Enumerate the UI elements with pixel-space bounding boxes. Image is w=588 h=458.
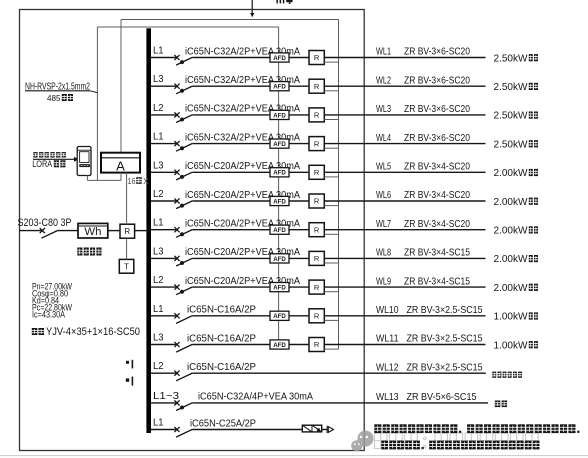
svg-text:AFD: AFD [273, 170, 286, 177]
surge arrester / fuse-disconnect on spare circuit [302, 425, 321, 432]
wire AFD to R row 9 [289, 286, 309, 288]
svg-text:WL4: WL4 [376, 132, 391, 144]
wire busbar tap row 1 [151, 57, 177, 59]
svg-text:2.00kW: 2.00kW [494, 225, 528, 237]
wire breaker to surge device row 14 [192, 429, 302, 431]
breaker Q10 iC65N-C16A/2P [174, 313, 179, 318]
svg-text:AFD: AFD [273, 285, 286, 292]
svg-text:R: R [314, 225, 320, 234]
svg-text:AFD: AFD [273, 141, 286, 148]
svg-text:R: R [314, 168, 320, 177]
watermark logo chat bubbles [351, 431, 373, 452]
AFD module row 2 [270, 82, 289, 91]
R residual-current module row 11 [309, 338, 324, 352]
breaker Q14 iC65N-C25A/2P [174, 427, 179, 432]
wire R stub to signal bus row 3 [324, 119, 338, 121]
svg-text:2.50kW: 2.50kW [494, 81, 528, 93]
wire AFD to R row 2 [289, 85, 309, 87]
svg-text:1.00kW: 1.00kW [494, 311, 528, 323]
wire breaker to AFD row 10 [192, 315, 270, 317]
wire incomer from border [20, 230, 43, 232]
svg-text:R: R [314, 312, 320, 321]
svg-text:R: R [314, 139, 320, 148]
breaker Q13 iC65N-C32A/4P+VEA 30mA [174, 400, 179, 405]
svg-text:ZR BV-3×4-SC20: ZR BV-3×4-SC20 [404, 189, 470, 201]
wire R to busbar [135, 230, 147, 232]
wire outgoing row 9 [324, 286, 485, 288]
svg-text:iC65N-C25A/2P: iC65N-C25A/2P [190, 417, 256, 429]
svg-text:R: R [314, 82, 320, 91]
svg-text:AFD: AFD [273, 256, 286, 263]
wire breaker to AFD row 1 [192, 57, 270, 59]
svg-text:WL13: WL13 [376, 391, 399, 403]
svg-text:2.50kW: 2.50kW [494, 110, 528, 122]
svg-text:L3: L3 [153, 74, 164, 85]
svg-text:A: A [116, 158, 125, 173]
svg-text:L2: L2 [153, 361, 164, 372]
svg-text:AFD: AFD [273, 198, 286, 205]
svg-text:2.00kW: 2.00kW [494, 167, 528, 179]
wire busbar tap row 9 [151, 286, 177, 288]
wire breaker to AFD row 5 [192, 171, 270, 173]
svg-text:AFD: AFD [273, 313, 286, 320]
wire 485 drop on left [96, 27, 98, 180]
svg-text:iC65N-C16A/2P: iC65N-C16A/2P [187, 361, 256, 373]
wire R stub to signal bus row 7 [324, 233, 338, 235]
svg-text:2.00kW: 2.00kW [494, 196, 528, 208]
AFD module row 5 [270, 168, 289, 177]
svg-text:ZR BV-3×4-SC20: ZR BV-3×4-SC20 [404, 161, 470, 173]
AFD module row 11 [270, 340, 289, 349]
svg-text:L2: L2 [153, 103, 164, 114]
wire R stub to signal bus row 10 [324, 319, 338, 321]
svg-text:iC65N-C16A/2P: iC65N-C16A/2P [187, 332, 256, 344]
wire AFD signal bus top run [97, 26, 278, 28]
svg-text:ZR BV-3×4-SC20: ZR BV-3×4-SC20 [404, 218, 470, 230]
breaker Q6 iC65N-C20A/2P+VEA 30mA [174, 198, 179, 203]
R residual-current module row 6 [309, 194, 324, 208]
svg-text:WL2: WL2 [376, 74, 391, 86]
label 无线传输终端 wireless terminal [33, 152, 66, 157]
wire AFD bus vertical [278, 27, 280, 345]
svg-text:LORA: LORA [32, 159, 53, 170]
wire busbar tap row 4 [151, 143, 177, 145]
AFD module row 1 [270, 53, 289, 62]
svg-text:R: R [124, 227, 130, 236]
breaker QF main S203-C80 3P [40, 228, 45, 233]
AFD module row 9 [270, 283, 289, 292]
label note line 2 配电箱回路尺寸调整 [381, 441, 539, 450]
svg-text:16: 16 [128, 177, 136, 186]
svg-text:ZR BV-3×2.5-SC15: ZR BV-3×2.5-SC15 [407, 361, 483, 373]
busbar main vertical bus [146, 28, 151, 433]
node PE terminal symbol [126, 378, 129, 381]
svg-text:R: R [314, 111, 320, 120]
wire breaker to Wh meter [58, 230, 78, 232]
breaker Q8 iC65N-C20A/2P+VEA 30mA [174, 256, 179, 261]
wire busbar tap row 13 [151, 402, 177, 404]
LoRa transmitter module [77, 147, 91, 176]
wire outgoing row 8 [324, 257, 485, 259]
label load row 13 [495, 401, 507, 408]
svg-text:ZR BV-3×4-SC15: ZR BV-3×4-SC15 [404, 275, 470, 287]
wire outgoing row 6 [324, 200, 485, 202]
svg-text:1.00kW: 1.00kW [494, 339, 528, 351]
R residual-current module row 8 [309, 251, 324, 265]
svg-text:L3: L3 [153, 246, 164, 257]
wire breaker to AFD row 3 [192, 114, 270, 116]
wire outgoing row 3 [324, 114, 485, 116]
wire breaker to AFD row 8 [192, 257, 270, 259]
svg-text:WL3: WL3 [376, 103, 391, 115]
wire AFD to R row 1 [289, 57, 309, 59]
svg-text:R: R [314, 340, 320, 349]
svg-text:iC65N-C32A/4P+VEA 30mA: iC65N-C32A/4P+VEA 30mA [198, 391, 313, 403]
svg-text:L1: L1 [153, 46, 164, 57]
svg-text:ZR BV-3×6-SC20: ZR BV-3×6-SC20 [404, 103, 470, 115]
breaker Q3 iC65N-C32A/2P+VEA 30mA [174, 112, 179, 117]
R residual-current module row 5 [309, 165, 324, 179]
wire incoming supply drop with down arrow [251, 0, 253, 14]
R residual-current module row 1 [309, 51, 324, 65]
wire AFD to R row 3 [289, 114, 309, 116]
wire outgoing row 5 [324, 171, 485, 173]
wire R stub to signal bus row 8 [324, 262, 338, 264]
outer border frame of distribution panel drawing [20, 10, 365, 451]
svg-text:L2: L2 [153, 189, 164, 200]
wire AFD to R row 10 [289, 315, 309, 317]
svg-text:WL9: WL9 [376, 275, 391, 287]
wire breaker to AFD row 7 [192, 229, 270, 231]
wire LoRa module to monitor A [86, 176, 88, 181]
breaker Q2 iC65N-C32A/2P+VEA 30mA [174, 84, 179, 89]
wire outgoing row 13 [192, 402, 488, 404]
wire busbar tap row 11 [151, 344, 177, 346]
svg-text:L1: L1 [153, 418, 164, 429]
svg-text:YJV-4×35+1×16-SC50: YJV-4×35+1×16-SC50 [46, 326, 140, 338]
wire breaker to AFD row 2 [192, 85, 270, 87]
wire breaker to AFD row 11 [192, 344, 270, 346]
breaker Q9 iC65N-C20A/2P+VEA 30mA [174, 285, 179, 290]
svg-text:2.00kW: 2.00kW [494, 253, 528, 265]
wire outgoing row 7 [324, 229, 485, 231]
breaker Q4 iC65N-C32A/2P+VEA 30mA [174, 141, 179, 146]
label incoming cable 进线 YJV-4×35+1×16-SC50 [32, 328, 44, 335]
breaker Q12 iC65N-C16A/2P [174, 371, 179, 376]
breaker Q1 iC65N-C32A/2P+VEA 30mA [174, 55, 179, 60]
wire R stub to signal bus row 1 [324, 61, 338, 63]
T temperature sensor [119, 259, 134, 273]
svg-text:ZR BV-3×2.5-SC15: ZR BV-3×2.5-SC15 [407, 304, 483, 316]
svg-text:AFD: AFD [273, 112, 286, 119]
faint page bottom edge line [0, 455, 588, 457]
wire busbar tap row 14 [151, 429, 177, 431]
svg-text:485: 485 [47, 93, 61, 103]
svg-text:WL11: WL11 [376, 333, 399, 345]
wire R stub to signal bus row 6 [324, 205, 338, 207]
wire R-bus left drop to meter A [120, 20, 122, 153]
svg-text:iC65N-C16A/2P: iC65N-C16A/2P [187, 304, 256, 316]
wire R stub to signal bus row 2 [324, 90, 338, 92]
svg-text:AFD: AFD [273, 342, 286, 349]
svg-text:ZR BV-3×4-SC15: ZR BV-3×4-SC15 [404, 247, 470, 259]
wire R stub to signal bus row 5 [324, 176, 338, 178]
wire AFD to R row 5 [289, 171, 309, 173]
AFD module row 10 [270, 311, 289, 320]
svg-text:ZR BV-3×6-SC20: ZR BV-3×6-SC20 [404, 74, 470, 86]
wire Wh to R sensor [108, 230, 120, 232]
svg-text:R: R [314, 53, 320, 62]
svg-text:ZR BV-3×6-SC20: ZR BV-3×6-SC20 [404, 46, 470, 58]
svg-text:L2: L2 [153, 275, 164, 286]
svg-text:R: R [314, 254, 320, 263]
svg-text:WL8: WL8 [376, 247, 391, 259]
wire AFD to R row 6 [289, 200, 309, 202]
wire R-module signal bus top run [121, 19, 339, 21]
svg-text:WL5: WL5 [376, 161, 391, 173]
wire outgoing row 12 [192, 372, 486, 374]
AFD module row 6 [270, 196, 289, 205]
wire outgoing row 11 [324, 344, 485, 346]
svg-text:S203-C80 3P: S203-C80 3P [18, 217, 72, 229]
wire A monitor down to R sensor [126, 173, 128, 225]
wire outgoing row 4 [324, 143, 485, 145]
AFD module row 8 [270, 254, 289, 263]
svg-text:WL7: WL7 [376, 218, 391, 230]
wire busbar tap row 6 [151, 200, 177, 202]
svg-text:L1: L1 [153, 132, 164, 143]
wire busbar tap row 12 [151, 372, 177, 374]
svg-text:WL12: WL12 [376, 361, 399, 373]
svg-text:WL6: WL6 [376, 189, 391, 201]
wire busbar tap row 8 [151, 257, 177, 259]
wire busbar tap row 10 [151, 315, 177, 317]
svg-text:ZR BV-3×2.5-SC15: ZR BV-3×2.5-SC15 [407, 333, 483, 345]
wire outgoing row 1 [324, 57, 485, 59]
svg-text:2.50kW: 2.50kW [494, 52, 528, 64]
svg-text:L1: L1 [153, 218, 164, 229]
R residual-current module row 9 [309, 280, 324, 294]
wire breaker to AFD row 6 [192, 200, 270, 202]
wire busbar tap row 7 [151, 229, 177, 231]
wire AFD to R row 11 [289, 344, 309, 346]
svg-text:WL1: WL1 [376, 46, 391, 58]
wire outgoing row 2 [324, 85, 485, 87]
R residual-current module row 7 [309, 223, 324, 237]
R residual-current module row 4 [309, 137, 324, 151]
R residual-current module row 10 [309, 309, 324, 323]
svg-text:ZR BV-5×6-SC15: ZR BV-5×6-SC15 [407, 391, 477, 403]
wire breaker to AFD row 9 [192, 286, 270, 288]
R residual-current module row 3 [309, 108, 324, 122]
wire surge to arrow [322, 429, 327, 431]
R residual-current module row 2 [309, 79, 324, 93]
svg-text:L1~3: L1~3 [153, 391, 179, 402]
label load row 12 [492, 372, 522, 378]
wire AFD to R row 7 [289, 229, 309, 231]
label note line 1 负载回路采用原有管线 [374, 424, 579, 433]
watermark text 公众号：艾科瑞产品应用 [375, 433, 539, 449]
wire breaker to AFD row 4 [192, 143, 270, 145]
wire AFD to R row 4 [289, 143, 309, 145]
meter A arc-fault monitor host [101, 153, 140, 173]
svg-text:L3: L3 [153, 333, 164, 344]
breaker Q5 iC65N-C20A/2P+VEA 30mA [174, 170, 179, 175]
svg-text:AFD: AFD [273, 55, 286, 62]
wire AFD to R row 8 [289, 257, 309, 259]
node N terminal symbol [126, 361, 129, 364]
label 原有电表 existing meter [77, 248, 101, 256]
wire leader under NH-RVSP label [25, 90, 90, 92]
breaker Q7 iC65N-C20A/2P+VEA 30mA [174, 227, 179, 232]
wire busbar tap row 2 [151, 85, 177, 87]
svg-text:Wh: Wh [84, 226, 101, 238]
svg-text:T: T [124, 262, 129, 271]
AFD module row 7 [270, 225, 289, 234]
wire R to T link [126, 238, 128, 259]
svg-text:L3: L3 [153, 160, 164, 171]
AFD module row 3 [270, 110, 289, 119]
wire leader arrow to LoRa module [33, 158, 75, 160]
svg-text:WL10: WL10 [376, 304, 399, 316]
wire busbar tap row 5 [151, 171, 177, 173]
label incoming source (clipped at top edge) [276, 0, 292, 4]
wire R stub to signal bus row 11 [324, 348, 338, 350]
breaker Q11 iC65N-C16A/2P [174, 342, 179, 347]
wire R-module bus vertical [338, 20, 340, 350]
wire outgoing row 10 [324, 315, 485, 317]
svg-text:R: R [314, 283, 320, 292]
svg-text:ZR BV-3×6-SC20: ZR BV-3×6-SC20 [404, 132, 470, 144]
svg-text:AFD: AFD [273, 84, 286, 91]
wire R stub to signal bus row 9 [324, 291, 338, 293]
svg-text:Ic=43.30A: Ic=43.30A [32, 310, 66, 320]
svg-text:AFD: AFD [273, 227, 286, 234]
meter Wh kilowatt-hour (existing) [78, 223, 108, 238]
svg-text:X: X [143, 177, 149, 186]
AFD module row 4 [270, 139, 289, 148]
svg-text:R: R [314, 197, 320, 206]
svg-text:2.00kW: 2.00kW [494, 282, 528, 294]
svg-text:2.50kW: 2.50kW [494, 138, 528, 150]
svg-text:L1: L1 [153, 304, 164, 315]
wire busbar tap row 3 [151, 114, 177, 116]
R residual current transformer main [120, 224, 135, 238]
wire R stub to signal bus row 4 [324, 147, 338, 149]
